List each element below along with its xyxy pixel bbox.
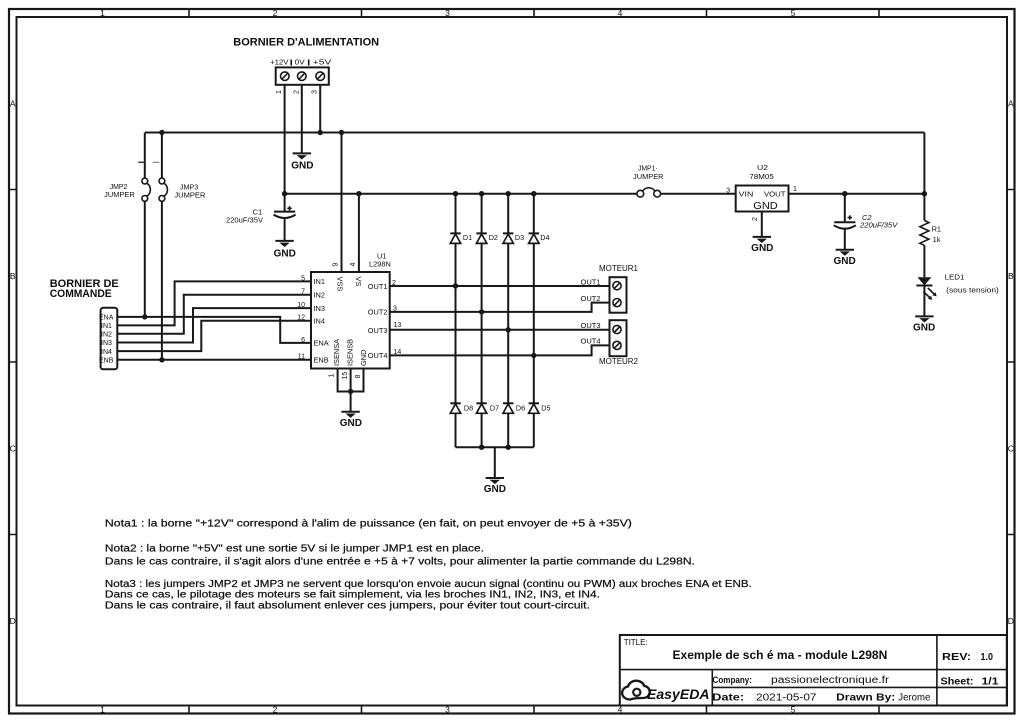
svg-text:C: C [1008, 443, 1014, 453]
svg-text:4: 4 [350, 263, 357, 267]
svg-text:OUT4: OUT4 [581, 337, 601, 346]
svg-text:B: B [10, 271, 16, 281]
svg-text:Nota1 : la borne "+12V" corres: Nota1 : la borne "+12V" correspond à l'a… [105, 519, 632, 530]
junction C1 [282, 191, 287, 196]
ground under U2 [751, 237, 773, 254]
capacitor C1 220uF/35V [226, 194, 296, 241]
svg-text:IN2: IN2 [314, 291, 326, 300]
wire LED to ground [923, 286, 925, 317]
svg-text:OUT3: OUT3 [368, 326, 388, 335]
svg-text:1: 1 [793, 186, 797, 193]
svg-text:13: 13 [394, 322, 402, 329]
wire OUT1 (U1 to MOTEUR1) [390, 285, 610, 287]
svg-text:3: 3 [726, 187, 730, 194]
svg-text:D8: D8 [464, 404, 473, 413]
svg-text:D2: D2 [489, 233, 498, 242]
svg-text:JUMPER: JUMPER [104, 190, 135, 199]
wire VS column down to U1 [358, 194, 360, 272]
jumper JMP2 pin mark [138, 161, 144, 163]
jumper JMP1 [633, 164, 664, 198]
svg-text:OUT1: OUT1 [581, 277, 601, 286]
wire bus down to JMP3 [161, 133, 163, 179]
junction D3 top [506, 191, 511, 196]
svg-text:1: 1 [276, 90, 283, 94]
wire OUT3 [390, 329, 610, 331]
ic U1 L298N [311, 252, 391, 369]
svg-text:IN4: IN4 [101, 349, 112, 356]
wire diode bottom rail [456, 446, 534, 448]
svg-text:IN3: IN3 [314, 304, 326, 313]
svg-text:GND: GND [751, 243, 773, 254]
svg-text:IN1: IN1 [314, 277, 326, 286]
wire IN2 row to U1 IN2 [117, 295, 311, 334]
wire +12V rail [285, 193, 637, 195]
svg-text:C1: C1 [253, 208, 263, 217]
terminal MOTEUR2 [599, 320, 639, 366]
svg-text:1k: 1k [933, 235, 941, 244]
wire ENB row to U1 ENB [117, 359, 311, 361]
junction VSS/bus [339, 130, 344, 135]
wire IN3 row to U1 IN3 [117, 308, 311, 342]
svg-text:TITLE:: TITLE: [624, 638, 648, 647]
jumper JMP3 pin mark [153, 161, 160, 163]
diode D5 [529, 403, 551, 447]
svg-text:R1: R1 [932, 225, 941, 234]
svg-text:VOUT: VOUT [764, 190, 786, 199]
wire IN1 row to U1 IN1 [117, 281, 311, 325]
regulator U2 78M05 [736, 163, 789, 212]
notes [105, 519, 752, 612]
title block [620, 635, 1007, 706]
wire +5V bus (horizontal) [145, 132, 925, 134]
svg-text:1: 1 [100, 704, 105, 714]
svg-text:1/1: 1/1 [982, 676, 1000, 687]
diode D6 [503, 403, 525, 447]
svg-text:C: C [10, 443, 16, 453]
svg-text:5: 5 [791, 8, 796, 18]
diode D3 [503, 194, 524, 404]
svg-text:6: 6 [301, 337, 305, 344]
svg-text:220uF/35V: 220uF/35V [226, 217, 263, 224]
svg-text:ENB: ENB [314, 356, 329, 365]
svg-text:EasyEDA: EasyEDA [647, 687, 710, 702]
svg-text:12: 12 [297, 315, 305, 322]
wire VOUT rail [789, 193, 925, 195]
junction D4 top [531, 191, 536, 196]
svg-text:LED1: LED1 [945, 273, 965, 282]
svg-text:5: 5 [301, 275, 305, 282]
svg-text:GND: GND [274, 248, 296, 259]
ground under C1 [274, 241, 296, 260]
svg-text:3: 3 [445, 8, 450, 18]
junction JMP3/bus [159, 130, 164, 135]
svg-text:D7: D7 [490, 404, 499, 413]
wire ENA row to U1 ENA [117, 317, 311, 343]
wire JMP1 to U2 VIN [661, 193, 736, 195]
svg-text:IN1: IN1 [101, 323, 112, 330]
svg-text:A: A [1008, 98, 1014, 108]
svg-text:IN2: IN2 [101, 331, 112, 338]
svg-text:B: B [1008, 271, 1014, 281]
svg-text:GND: GND [833, 256, 855, 267]
svg-text:OUT3: OUT3 [581, 321, 601, 330]
wire JMP3 down to ENB row [161, 201, 163, 360]
svg-text:1: 1 [100, 8, 105, 18]
ground under pin 2 [291, 153, 313, 171]
svg-text:BORNIER D'ALIMENTATION: BORNIER D'ALIMENTATION [233, 37, 379, 49]
svg-text:C2: C2 [862, 213, 872, 222]
svg-text:15: 15 [342, 372, 349, 380]
svg-text:78M05: 78M05 [749, 172, 773, 181]
wire +12V from pin1 down to +12V rail [284, 85, 286, 194]
svg-text:Dans le cas contraire, il faut: Dans le cas contraire, il faut absolumen… [105, 601, 590, 612]
ground under U1 [340, 412, 362, 429]
svg-text:220uF/35V: 220uF/35V [859, 223, 899, 230]
ground under LED1 [913, 316, 935, 333]
svg-text:JUMPER: JUMPER [633, 172, 664, 181]
svg-text:OUT1: OUT1 [368, 282, 388, 291]
svg-text:GND: GND [484, 484, 506, 495]
capacitor C2 220uF/35V [834, 194, 899, 250]
diode D1 [450, 194, 472, 404]
jumper JMP2 [104, 178, 150, 201]
svg-text:Dans le cas contraire, il s'ag: Dans le cas contraire, il s'agit alors d… [105, 557, 695, 568]
svg-text:3: 3 [445, 704, 450, 714]
diode D7 [476, 403, 499, 447]
svg-text:passionelectronique.fr: passionelectronique.fr [771, 675, 890, 686]
wire U1 bottom pins 1,15,8 to ground [338, 369, 364, 392]
svg-text:D4: D4 [540, 233, 549, 242]
ground under diode rail [484, 478, 506, 495]
wire bus down to JMP2 [144, 133, 146, 179]
svg-text:+5V: +5V [313, 60, 332, 67]
svg-text:D1: D1 [463, 233, 472, 242]
svg-text:2: 2 [273, 8, 278, 18]
svg-text:D3: D3 [515, 233, 524, 242]
svg-text:L298N: L298N [369, 260, 391, 269]
junction pin3/bus [318, 130, 323, 135]
svg-text:Jerome: Jerome [898, 692, 930, 703]
svg-text:ENA: ENA [99, 315, 114, 322]
svg-text:0V: 0V [295, 60, 305, 67]
svg-text:Nota2 : la borne "+5V" est une: Nota2 : la borne "+5V" est une sortie 5V… [105, 544, 484, 555]
svg-text:ENB: ENB [99, 358, 114, 365]
wire JMP2 down to ENA row [144, 201, 146, 317]
svg-text:ISENSA: ISENSA [332, 339, 341, 366]
svg-text:MOTEUR2: MOTEUR2 [599, 357, 639, 366]
wire OUT4 [390, 345, 610, 355]
led LED1 [916, 273, 998, 300]
svg-text:ENA: ENA [314, 339, 329, 348]
svg-text:Nota3 : les jumpers JMP2 et JM: Nota3 : les jumpers JMP2 et JMP3 ne serv… [105, 579, 752, 590]
svg-text:VIN: VIN [739, 190, 754, 199]
svg-text:MOTEUR1: MOTEUR1 [599, 264, 639, 273]
svg-text:2021-05-07: 2021-05-07 [756, 692, 817, 703]
svg-text:1: 1 [329, 374, 336, 378]
svg-text:D: D [10, 616, 16, 626]
svg-text:3: 3 [312, 90, 319, 94]
svg-text:VS: VS [354, 277, 363, 287]
junction D2 top [479, 191, 484, 196]
EasyEDA logo [622, 681, 709, 702]
diode D4 [529, 194, 550, 404]
svg-text:A: A [10, 98, 16, 108]
svg-text:(sous tension): (sous tension) [946, 287, 999, 294]
jumper JMP3 [159, 178, 205, 201]
wire VSS column down to U1 [341, 133, 343, 273]
svg-text:Sheet:: Sheet: [941, 676, 974, 687]
svg-text:JUMPER: JUMPER [174, 191, 205, 200]
svg-text:Company:: Company: [713, 675, 753, 685]
svg-text:REV:: REV: [942, 651, 971, 663]
diode D2 [476, 194, 498, 404]
svg-text:D5: D5 [541, 404, 550, 413]
svg-text:2: 2 [752, 217, 759, 221]
svg-text:GND: GND [291, 161, 313, 172]
svg-text:Exemple de sch é ma - module L: Exemple de sch é ma - module L298N [673, 650, 888, 662]
wire U2 GND pin down [761, 212, 763, 237]
wire +5V pin3 down to +5V bus [319, 85, 321, 133]
svg-text:9: 9 [333, 263, 340, 267]
svg-text:D6: D6 [516, 404, 525, 413]
svg-text:U2: U2 [757, 163, 768, 172]
svg-text:D: D [1008, 616, 1014, 626]
svg-text:Drawn By:: Drawn By: [836, 692, 895, 703]
svg-text:+12V: +12V [270, 60, 289, 67]
svg-text:1.0: 1.0 [981, 651, 994, 663]
junction D1 top [453, 191, 458, 196]
svg-text:OUT4: OUT4 [368, 351, 388, 360]
svg-text:Date:: Date: [712, 692, 744, 703]
svg-text:IN4: IN4 [314, 317, 326, 326]
svg-text:IN3: IN3 [101, 340, 112, 347]
svg-text:7: 7 [301, 289, 305, 296]
svg-text:OUT2: OUT2 [368, 308, 388, 317]
svg-text:GND: GND [913, 322, 935, 333]
terminal MOTEUR1 [599, 264, 639, 313]
svg-text:Dans ce cas, le pilotage des m: Dans ce cas, le pilotage des moteurs se … [105, 590, 600, 601]
diode D8 [450, 403, 473, 447]
svg-text:2: 2 [293, 90, 300, 94]
svg-text:10: 10 [297, 302, 305, 309]
svg-text:4: 4 [618, 8, 623, 18]
svg-text:8: 8 [355, 375, 362, 379]
ground under C2 [833, 250, 855, 267]
svg-text:VSS: VSS [335, 277, 344, 292]
connector BORNIER DE COMMANDE [50, 278, 119, 370]
svg-text:11: 11 [298, 354, 305, 361]
wire IN4 row to U1 IN4 [117, 321, 311, 351]
svg-text:ISENSB: ISENSB [345, 339, 354, 366]
svg-text:GND: GND [359, 350, 368, 366]
terminal block BORNIER D'ALIMENTATION [233, 37, 379, 85]
svg-text:OUT2: OUT2 [581, 294, 601, 303]
resistor R1 1k [920, 194, 941, 278]
junction VS [356, 191, 361, 196]
wire OUT2 [390, 303, 610, 312]
wire 0V pin2 down to ground [301, 85, 303, 154]
svg-text:2: 2 [273, 704, 278, 714]
wire +5V bus right end down to VOUT rail [923, 133, 925, 194]
svg-text:COMMANDE: COMMANDE [50, 288, 112, 300]
svg-text:GND: GND [753, 200, 778, 212]
svg-text:GND: GND [340, 418, 362, 429]
